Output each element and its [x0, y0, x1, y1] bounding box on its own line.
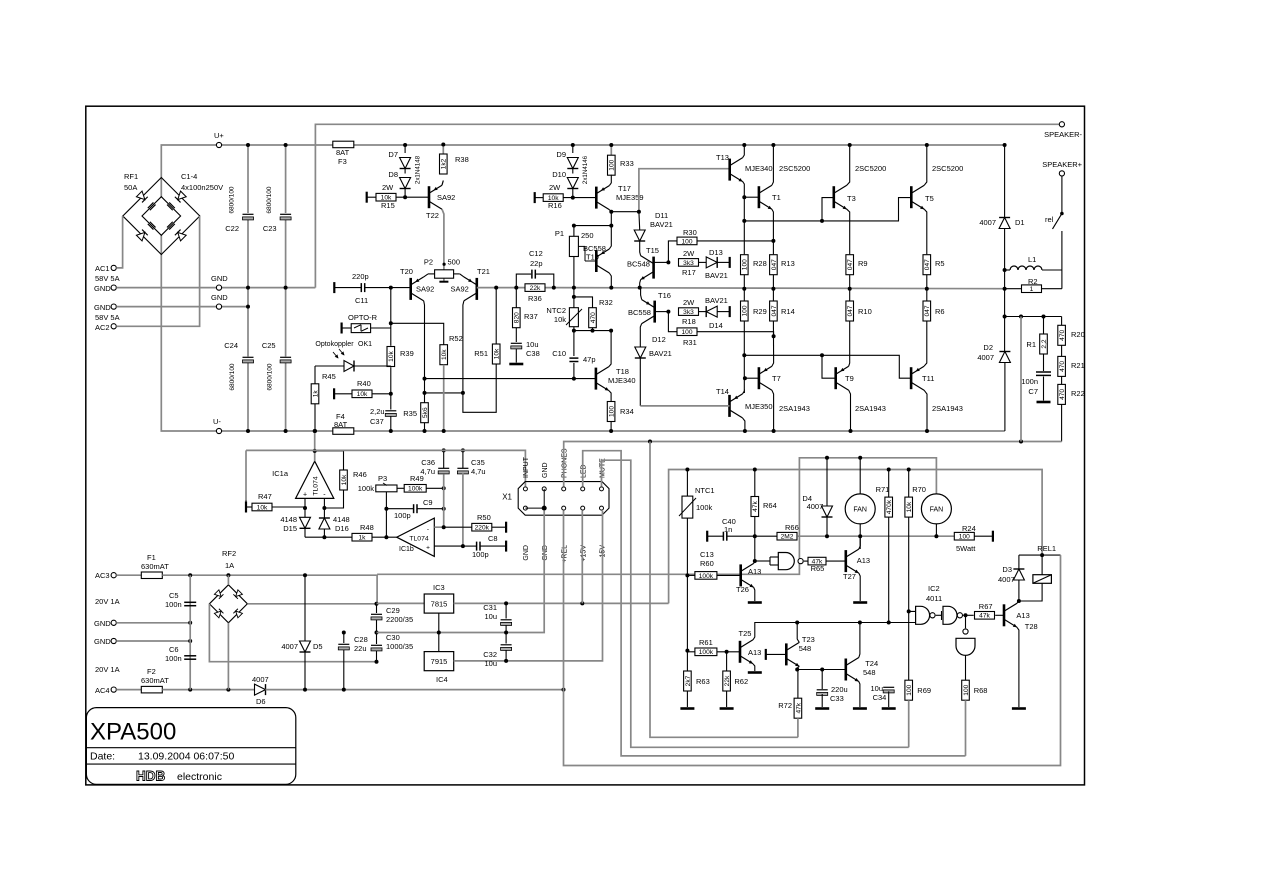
wire C22 column: [247, 145, 249, 213]
svg-text:58V 5A: 58V 5A: [95, 313, 120, 322]
svg-text:T17: T17: [618, 184, 631, 193]
svg-text:5Watt: 5Watt: [956, 544, 976, 553]
resistor R18 3k3 2W: [679, 308, 699, 316]
wire U+ rail: [161, 145, 1004, 216]
wire AC3 line: [162, 575, 377, 603]
svg-text:47k: 47k: [979, 613, 990, 620]
wire T25 collector to mute rail: [753, 623, 889, 640]
ground R63: [680, 707, 694, 710]
wire GND bus row1: [116, 287, 216, 289]
wire IC1a top node: [314, 431, 316, 461]
resistor R46 10k: [315, 451, 344, 470]
svg-text:C25: C25: [262, 341, 276, 350]
transistor T20 SA92: [409, 278, 412, 300]
fuse F4: [333, 428, 354, 435]
transistor T5 2SC5200: [910, 186, 913, 208]
svg-text:1000/35: 1000/35: [386, 642, 413, 651]
wire T18 base line: [425, 378, 596, 380]
capacitor C28 22u: [343, 633, 345, 644]
svg-text:T23: T23: [802, 635, 815, 644]
svg-text:R22: R22: [1071, 389, 1085, 398]
node U-: [216, 428, 221, 433]
fan FAN1: [859, 458, 861, 494]
capacitor C7 100n: [1043, 354, 1045, 371]
resistor R49 100k: [397, 487, 405, 489]
svg-text:6800/100: 6800/100: [266, 186, 273, 213]
svg-text:T15: T15: [646, 246, 659, 255]
wire T16 collector to D12: [640, 324, 641, 347]
ground T24: [853, 707, 867, 710]
wire T27 collector: [859, 536, 860, 549]
svg-text:100n: 100n: [165, 654, 182, 663]
resistor R39 10k: [387, 347, 395, 367]
svg-text:R31: R31: [683, 338, 697, 347]
wire T3 emitter: [847, 209, 850, 254]
svg-text:2SC5200: 2SC5200: [779, 164, 810, 173]
svg-text:2W: 2W: [549, 183, 561, 192]
wire base drive rail lower: [744, 355, 835, 378]
bridge rectifier RF2: [209, 585, 247, 623]
resistor R71 470k: [888, 470, 890, 498]
capacitor C33 220u: [817, 689, 828, 691]
svg-text:1k: 1k: [312, 390, 319, 398]
capacitor C29 2200/35: [376, 604, 378, 613]
capacitor C38 10u: [515, 328, 517, 342]
wire LED net: [583, 451, 966, 756]
wire T14 emitter to U-: [743, 418, 745, 431]
svg-text:2M2: 2M2: [781, 534, 794, 541]
wire R22 bottom to sense line: [1061, 404, 1063, 441]
svg-text:T14: T14: [716, 387, 729, 396]
svg-text:8AT: 8AT: [334, 420, 348, 429]
wire T23 collector: [797, 623, 799, 643]
svg-text:GND: GND: [542, 462, 549, 478]
svg-text:47k: 47k: [795, 702, 802, 713]
svg-text:250: 250: [581, 231, 594, 240]
optocoupler resistor OPTO-R: [341, 323, 343, 334]
svg-text:C28: C28: [354, 635, 368, 644]
svg-text:4x100n250V: 4x100n250V: [181, 183, 223, 192]
svg-text:R5: R5: [935, 259, 945, 268]
wire U- rail: [161, 216, 1005, 431]
svg-text:10k: 10k: [357, 391, 368, 398]
ground C34: [882, 707, 896, 710]
svg-text:R20: R20: [1071, 330, 1085, 339]
resistor R31 100: [668, 312, 677, 332]
svg-text:100: 100: [959, 534, 970, 541]
svg-text:8AT: 8AT: [336, 148, 350, 157]
svg-text:630mAT: 630mAT: [141, 562, 169, 571]
svg-text:GND: GND: [211, 274, 228, 283]
diode D4 4007: [826, 458, 828, 506]
svg-text:C5: C5: [169, 591, 179, 600]
svg-text:2x1N4146: 2x1N4146: [582, 155, 589, 184]
wire gate out to R67: [963, 614, 974, 616]
wire raw+ to fans: [377, 458, 936, 575]
svg-text:L1: L1: [1028, 255, 1036, 264]
svg-text:1: 1: [1030, 286, 1034, 293]
wire X1 gnd links: [525, 507, 544, 509]
svg-text:3k3: 3k3: [683, 260, 694, 267]
nand gate IC2c: [936, 614, 942, 616]
wire GND4: [116, 640, 190, 642]
svg-text:GND: GND: [94, 619, 111, 628]
svg-text:2k7: 2k7: [685, 675, 692, 686]
svg-text:100: 100: [609, 159, 616, 170]
svg-text:100n: 100n: [1021, 377, 1038, 386]
svg-text:R51: R51: [474, 349, 488, 358]
svg-text:2SC5200: 2SC5200: [932, 164, 963, 173]
capacitor C23: [280, 213, 291, 215]
diode D15 4148: [300, 517, 311, 528]
svg-text:D3: D3: [1002, 565, 1012, 574]
wire to T13 base: [639, 169, 730, 212]
wire +15V ctrl rail: [669, 470, 1043, 604]
svg-text:OPTO-R: OPTO-R: [348, 313, 378, 322]
resistor R72 47k: [797, 670, 799, 699]
diodes D9 D10 1N4148: [572, 145, 574, 153]
wire T19 collector: [609, 226, 611, 249]
transistor T27 A13: [844, 550, 847, 572]
svg-text:R16: R16: [548, 201, 562, 210]
svg-text:R17: R17: [682, 268, 696, 277]
svg-text:100: 100: [681, 329, 692, 336]
transistor T11 2SA1943: [910, 367, 913, 389]
svg-text:R40: R40: [357, 379, 371, 388]
svg-text:1n: 1n: [724, 525, 732, 534]
transistor T7 2SA1943: [758, 367, 761, 389]
capacitor C25: [280, 356, 291, 358]
svg-text:R21: R21: [1071, 361, 1085, 370]
resistor R62 22k: [726, 652, 728, 671]
svg-text:2W: 2W: [683, 298, 695, 307]
svg-text:047: 047: [847, 259, 854, 270]
svg-text:AC2: AC2: [95, 323, 110, 332]
diode D2 4007: [1004, 317, 1006, 352]
svg-text:R63: R63: [696, 677, 710, 686]
svg-text:GND: GND: [542, 545, 549, 561]
wire C23 column: [285, 145, 287, 213]
transistor T15 BC548: [652, 257, 655, 279]
svg-text:2200/35: 2200/35: [386, 615, 413, 624]
svg-text:4007: 4007: [979, 218, 996, 227]
wire T21 collector to T18 base node: [425, 392, 463, 394]
svg-text:10u: 10u: [870, 684, 883, 693]
svg-text:+: +: [303, 492, 307, 499]
transistor T17 MJE359: [595, 187, 598, 209]
relay contact rel: [1061, 176, 1063, 212]
capacitor C12 22p: [516, 274, 531, 288]
capacitor C11 220p: [333, 282, 335, 293]
wire T1 base: [744, 196, 759, 198]
transistor T16 BC558: [653, 301, 656, 323]
svg-text:C33: C33: [830, 694, 844, 703]
svg-text:XPA500: XPA500: [90, 719, 176, 746]
svg-text:T11: T11: [922, 374, 934, 383]
svg-text:D13: D13: [709, 248, 723, 257]
wire R39 bottom node: [390, 367, 392, 409]
svg-text:R67: R67: [979, 602, 993, 611]
resistor R2 1: [1003, 287, 1007, 291]
wire R64 column: [754, 517, 756, 562]
svg-text:1k2: 1k2: [441, 158, 448, 169]
svg-text:C9: C9: [423, 498, 433, 507]
svg-text:100: 100: [742, 305, 749, 316]
wire protect sense net: [650, 442, 798, 738]
svg-text:220k: 220k: [475, 525, 490, 532]
diode D1 4007: [1004, 145, 1006, 217]
resistor R38 1k2: [440, 154, 448, 174]
capacitor C35 4.7u: [457, 467, 468, 469]
svg-text:BC548: BC548: [627, 260, 650, 269]
resistor R48 1k: [352, 533, 372, 541]
resistor R63 2k7: [684, 671, 692, 691]
svg-text:D11: D11: [655, 211, 668, 220]
resistor R52 10k: [391, 323, 443, 344]
svg-text:C13: C13: [700, 550, 714, 559]
svg-text:R35: R35: [403, 409, 417, 418]
title block: [86, 708, 295, 785]
terminal AC3: [111, 573, 116, 578]
wire R46 bottom to inverting input: [324, 490, 343, 508]
diode D3 4007: [1018, 555, 1020, 569]
svg-text:D16: D16: [335, 524, 349, 533]
svg-text:T5: T5: [925, 194, 934, 203]
svg-text:R30: R30: [683, 228, 697, 237]
wire IC1a input columns: [304, 498, 306, 517]
svg-text:GND: GND: [94, 284, 111, 293]
wire bridge left raw-: [209, 604, 376, 662]
svg-text:22u: 22u: [354, 644, 367, 653]
resistor R37 820: [515, 288, 517, 308]
svg-text:R65: R65: [811, 564, 825, 573]
svg-text:C1-4: C1-4: [181, 172, 197, 181]
wire T1 emitter to R13: [772, 209, 774, 254]
wire T16 emitter: [641, 288, 642, 300]
svg-text:2W: 2W: [382, 183, 394, 192]
ground T25: [748, 671, 762, 674]
transistor T1 2SC5200: [758, 186, 761, 208]
svg-text:2SC5200: 2SC5200: [855, 164, 886, 173]
wire base drive rail upper: [744, 198, 834, 221]
svg-text:T9: T9: [845, 374, 854, 383]
svg-text:T13: T13: [716, 153, 729, 162]
ground R62: [720, 707, 734, 710]
diode D5 4007: [304, 575, 306, 641]
resistor R28 100: [741, 255, 749, 275]
svg-text:BAV21: BAV21: [650, 220, 673, 229]
svg-text:+REL: +REL: [562, 545, 569, 563]
resistor R32 470: [574, 297, 593, 308]
ground C7: [1037, 401, 1051, 404]
op-amp IC1a TL074: [296, 461, 334, 498]
wire T15 collector from D11: [639, 250, 642, 256]
wire NTC2/R32 bottom: [573, 327, 575, 356]
ground T26: [748, 601, 762, 604]
wire T18 collector: [609, 331, 611, 367]
diode D11 BAV21: [638, 212, 641, 230]
svg-text:1A: 1A: [225, 561, 234, 570]
svg-text:7815: 7815: [431, 600, 448, 609]
wire gate d to R68: [965, 655, 967, 680]
svg-text:SPEAKER+: SPEAKER+: [1042, 160, 1082, 169]
wire NTC1 column: [686, 518, 688, 651]
svg-text:electronic: electronic: [177, 771, 222, 783]
svg-text:P1: P1: [555, 229, 564, 238]
svg-text:SA92: SA92: [451, 285, 469, 294]
svg-text:470: 470: [590, 312, 597, 323]
svg-text:D14: D14: [709, 321, 723, 330]
wire Zobel node: [1005, 316, 1062, 318]
svg-text:SA92: SA92: [416, 285, 434, 294]
relay coil REL1: [1033, 575, 1052, 584]
svg-text:100: 100: [742, 259, 749, 270]
svg-text:548: 548: [799, 644, 812, 653]
svg-text:T1: T1: [772, 193, 781, 202]
wire T14 base from D12: [640, 405, 729, 407]
svg-text:2,2u: 2,2u: [370, 407, 385, 416]
capacitor C10 47p: [569, 357, 578, 359]
regulator IC4 7915: [424, 652, 454, 671]
svg-text:047: 047: [847, 305, 854, 316]
svg-text:R34: R34: [620, 407, 634, 416]
wire input column: [390, 288, 392, 346]
svg-text:D8: D8: [388, 170, 398, 179]
svg-text:D6: D6: [256, 697, 266, 706]
svg-text:R29: R29: [753, 307, 767, 316]
wire R70 column: [909, 517, 916, 611]
diode D16 4148: [319, 518, 330, 529]
wire T7 emitter from R14: [772, 357, 774, 366]
wire T26 emitter to gnd: [754, 587, 755, 601]
transistor T18 MJE340: [595, 368, 598, 390]
wire T18 emitter to R34: [609, 391, 611, 402]
svg-text:100k: 100k: [699, 649, 714, 656]
svg-text:AC4: AC4: [95, 686, 110, 695]
wire +15V line: [454, 602, 669, 604]
svg-text:820: 820: [514, 312, 521, 323]
terminal SPEAKER+: [1059, 171, 1064, 176]
wire T7 collector to U-: [772, 390, 774, 431]
svg-text:R2: R2: [1028, 277, 1038, 286]
potentiometer P3 100k: [376, 485, 397, 492]
svg-text:C38: C38: [526, 349, 540, 358]
svg-text:630mAT: 630mAT: [141, 676, 169, 685]
resistor R67 47k: [975, 612, 995, 620]
svg-text:22p: 22p: [530, 259, 543, 268]
capacitor C37 2.2u: [385, 410, 396, 412]
resistor R51 10k: [495, 288, 497, 344]
wire AC2 to bridge: [116, 216, 199, 326]
svg-text:F3: F3: [338, 157, 347, 166]
wire T27 emitter: [859, 573, 860, 601]
wire T26 collector: [754, 561, 755, 563]
svg-text:D15: D15: [283, 524, 297, 533]
ground T28: [1012, 707, 1026, 710]
svg-text:10k: 10k: [494, 348, 501, 359]
wire T21 base line to rail: [477, 287, 554, 289]
svg-text:R64: R64: [763, 501, 777, 510]
resistor R24 100 5Watt: [954, 532, 974, 540]
svg-text:T28: T28: [1025, 622, 1038, 631]
svg-text:100k: 100k: [408, 486, 423, 493]
svg-text:R61: R61: [699, 638, 713, 647]
svg-text:R33: R33: [620, 159, 634, 168]
svg-text:C7: C7: [1028, 387, 1038, 396]
svg-text:T3: T3: [847, 194, 856, 203]
inductor L1: [1003, 268, 1007, 272]
transistor T23 548: [765, 649, 767, 660]
svg-text:P3: P3: [378, 474, 387, 483]
svg-text:rel: rel: [1045, 215, 1054, 224]
svg-text:RF1: RF1: [124, 172, 138, 181]
ground T27: [853, 601, 867, 604]
svg-text:4007: 4007: [977, 353, 994, 362]
wire T20 emitter to P2: [424, 274, 428, 277]
transistor T26 A13: [739, 564, 742, 586]
svg-text:20V 1A: 20V 1A: [95, 665, 120, 674]
svg-text:IC4: IC4: [436, 675, 448, 684]
svg-text:R71: R71: [876, 485, 890, 494]
svg-text:10u: 10u: [484, 612, 497, 621]
svg-text:R6: R6: [935, 307, 945, 316]
svg-text:R69: R69: [917, 686, 931, 695]
svg-text:20V 1A: 20V 1A: [95, 597, 120, 606]
svg-text:47k: 47k: [752, 500, 759, 511]
svg-text:100: 100: [609, 406, 616, 417]
svg-text:MJE350: MJE350: [745, 402, 773, 411]
svg-text:T26: T26: [736, 585, 749, 594]
svg-text:F1: F1: [147, 553, 156, 562]
svg-text:2W: 2W: [683, 249, 695, 258]
svg-text:F2: F2: [147, 667, 156, 676]
svg-text:X1: X1: [502, 493, 512, 502]
nand gate IC2a: [755, 560, 770, 562]
svg-text:RF2: RF2: [222, 549, 236, 558]
wire R29 to rail: [743, 321, 745, 355]
svg-text:C31: C31: [483, 603, 497, 612]
terminal GND3: [111, 620, 116, 625]
svg-text:22k: 22k: [724, 675, 731, 686]
terminal AC4: [111, 687, 116, 692]
resistor R14 047: [772, 289, 774, 301]
svg-text:A13: A13: [748, 648, 761, 657]
svg-text:220u: 220u: [831, 685, 848, 694]
svg-text:R66: R66: [785, 523, 799, 532]
svg-text:GND: GND: [211, 293, 228, 302]
svg-text:C29: C29: [386, 606, 400, 615]
svg-text:C30: C30: [386, 633, 400, 642]
svg-text:R37: R37: [524, 312, 538, 321]
wire T24 emitter: [859, 682, 860, 708]
svg-text:R72: R72: [778, 701, 792, 710]
resistor R34 100: [607, 402, 615, 422]
wire T16 base node: [655, 311, 669, 313]
svg-text:R14: R14: [781, 307, 795, 316]
wire T22 collector to P2 wiper: [442, 209, 444, 281]
svg-text:58V 5A: 58V 5A: [95, 274, 120, 283]
svg-text:500: 500: [448, 258, 461, 267]
terminal GND4: [111, 638, 116, 643]
svg-text:A13: A13: [748, 567, 761, 576]
svg-text:R28: R28: [753, 259, 767, 268]
svg-text:C6: C6: [169, 645, 179, 654]
svg-text:R24: R24: [962, 524, 976, 533]
svg-text:C10: C10: [552, 349, 566, 358]
svg-text:10u: 10u: [484, 659, 497, 668]
potentiometer P2 500: [435, 270, 454, 278]
wire T15 emitter: [639, 280, 642, 288]
